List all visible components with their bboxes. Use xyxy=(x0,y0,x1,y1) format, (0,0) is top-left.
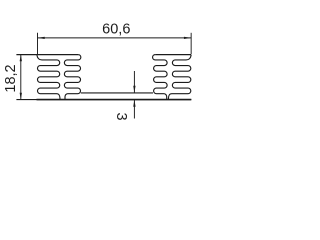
dim 3 upper dimension line with down arrowhead xyxy=(133,71,135,93)
base plate top surface line (middle span) xyxy=(81,92,153,94)
dim 60,6 left arrowhead xyxy=(38,37,45,39)
dim 18,2 bottom arrowhead xyxy=(20,93,22,100)
dim 18,2 dimension line xyxy=(20,55,22,100)
fin serpentine N1 (left group inner column) xyxy=(64,55,80,100)
profile top line right group xyxy=(155,54,191,56)
svg-text:3: 3 xyxy=(113,112,129,120)
svg-text:18,2: 18,2 xyxy=(3,64,19,92)
base plate bottom line + 18,2 bottom extension line xyxy=(16,99,191,101)
fin serpentine W2 (right group outer column) xyxy=(168,55,191,100)
dim 60,6 left extension line xyxy=(37,33,39,54)
dim 18,2 top arrowhead xyxy=(20,55,22,62)
base plate bottom line thicker part under profile xyxy=(37,99,192,101)
dim 60,6 dimension line xyxy=(38,37,192,39)
fin serpentine N2 (right group inner column) xyxy=(153,55,168,100)
fin serpentine W1 (left group outer column) xyxy=(37,55,60,100)
dim 60,6 right extension line xyxy=(190,33,192,55)
dim 3 lower dimension line with up arrowhead xyxy=(133,100,135,119)
dim 60,6 right arrowhead xyxy=(184,37,191,39)
profile top line left group + 18,2 top extension line xyxy=(16,54,78,56)
svg-text:60,6: 60,6 xyxy=(102,22,130,38)
